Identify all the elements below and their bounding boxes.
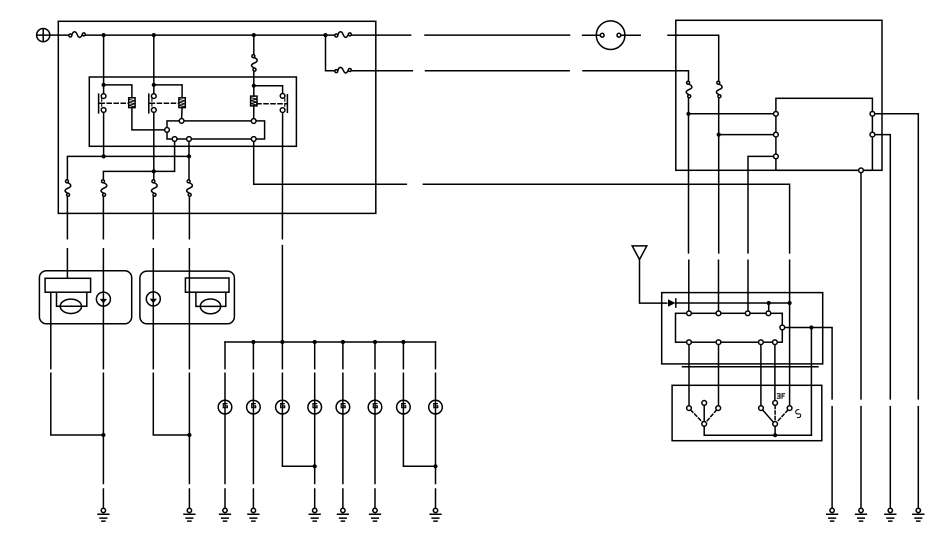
wire: pin3 to radio — [748, 156, 773, 310]
relay R3 armature — [286, 95, 288, 113]
dimmer relay box — [89, 77, 296, 146]
left headlight unit — [39, 271, 131, 324]
junction — [373, 340, 377, 344]
ground — [370, 508, 381, 521]
lamp bus drop 3 — [281, 342, 283, 400]
circuit breaker CB4 — [251, 55, 257, 72]
junction — [809, 325, 813, 329]
junction — [152, 83, 156, 87]
wire: bus to relay2 — [153, 35, 155, 85]
left bulb body — [57, 292, 87, 306]
radio pin bottom g — [759, 340, 764, 345]
junction — [401, 340, 405, 344]
relay R2 coil feed — [154, 85, 182, 98]
switch label 3F — [777, 394, 784, 399]
left unit connector symbol — [96, 292, 110, 306]
relay R2 contact dashed — [151, 99, 153, 108]
LO rail — [103, 142, 174, 180]
ground — [248, 508, 259, 521]
relay R1 contact terminals — [101, 94, 106, 99]
antenna — [632, 246, 647, 260]
lighting switch box — [672, 385, 822, 440]
relay R1 link dashed — [100, 102, 129, 104]
right control unit box — [676, 20, 882, 170]
relay connector block — [167, 121, 265, 139]
relay R2 contact terminals — [151, 94, 156, 99]
wire: lamp col 435.5 to ground — [435, 414, 437, 508]
lamp bus drop 4 — [314, 342, 316, 400]
bulb L4 — [308, 400, 322, 414]
junction — [251, 340, 255, 344]
lamp bus drop 8 — [435, 342, 437, 400]
junction — [788, 301, 792, 305]
inner box pin3 — [774, 154, 779, 159]
circuit breaker CB1 — [69, 32, 86, 38]
wire: lamp col 314.7 to ground — [314, 414, 316, 508]
wire: pin6 to ground2 — [860, 173, 862, 508]
wire: CB5 dot to inner box — [689, 113, 774, 115]
wire: lamp col 253.4 to ground — [252, 414, 254, 508]
wire: left ground run — [102, 306, 104, 508]
relay R1 armature — [99, 94, 101, 113]
switch label 5 — [796, 410, 801, 418]
wire: ignition to right box — [621, 35, 719, 81]
radio pin top a — [687, 311, 692, 316]
wire: branch down to second feed — [326, 35, 335, 71]
junction — [313, 340, 317, 344]
radio pin right — [780, 325, 785, 330]
junction — [341, 340, 345, 344]
bulb L5 — [336, 400, 350, 414]
wire: CB4 to relay3 — [253, 71, 255, 85]
switch common wire — [704, 427, 811, 436]
relay R1 coil feed — [104, 85, 132, 98]
ground right 832.1 — [827, 508, 838, 521]
wire: lamp3 elbow — [282, 414, 314, 466]
left bulb reflector — [45, 278, 91, 292]
battery B+ — [37, 28, 50, 41]
circuit breaker CB5 — [686, 81, 692, 98]
relay R3 contact feed — [254, 86, 283, 94]
radio chassis line — [683, 366, 818, 368]
relay R3 link dashed — [257, 103, 286, 105]
radio pin bottom h — [773, 340, 778, 345]
wire: fuse3 out down — [152, 197, 154, 292]
inner box pin5 — [870, 132, 875, 137]
right headlight unit — [140, 271, 235, 324]
junction — [102, 33, 106, 37]
relay R2 armature — [149, 94, 151, 113]
ground — [220, 508, 231, 521]
junction — [433, 464, 437, 468]
wire: fuse1 out to left headlight — [66, 197, 68, 279]
ground right 918.3 — [913, 508, 924, 521]
relay R1 coil — [129, 98, 135, 108]
lamp bus drop 2 — [252, 342, 254, 400]
wire: R3 output to lamp bus — [281, 113, 283, 342]
wire: diode tap to pin — [768, 303, 770, 311]
junction — [187, 154, 191, 158]
ground right 861 — [856, 508, 867, 521]
ground — [309, 508, 320, 521]
relay R1 contact dashed — [101, 99, 103, 108]
junction — [686, 112, 690, 116]
wire: pin5 to ground3 — [875, 135, 890, 509]
junction — [252, 33, 256, 37]
relay R2 coil out — [181, 108, 184, 119]
junction — [280, 340, 284, 344]
wire: CB5 to pin and down — [688, 98, 690, 311]
ignition switch connector — [596, 21, 625, 50]
ground — [430, 508, 441, 521]
radio connector block — [676, 313, 783, 342]
bulb L2 — [247, 400, 261, 414]
wire: R2 output down — [153, 113, 155, 180]
relay R2 link dashed — [150, 102, 179, 104]
circuit breaker CB2 — [335, 32, 352, 38]
right unit connector symbol — [146, 292, 160, 306]
connector pin top1 — [179, 119, 184, 124]
wire: CB6 to pin and down — [718, 98, 720, 311]
lamp bus drop 6 — [374, 342, 376, 400]
circuit breaker CB6 — [716, 81, 722, 98]
fuse F1 — [65, 180, 71, 197]
connector pin bot3 — [251, 137, 256, 142]
diode D1 — [668, 299, 676, 307]
wire: fuse2 out down — [102, 197, 104, 293]
radio pin top d — [766, 311, 771, 316]
junction — [152, 33, 156, 37]
wire: bus y35 into ignition switch — [583, 34, 601, 36]
right inner unit box — [776, 98, 873, 170]
inner box pin6 — [859, 168, 864, 173]
relay R1 coil out to connector — [132, 108, 165, 130]
wire: pin4 to ground4 — [875, 114, 918, 508]
bulb L6 — [368, 400, 382, 414]
ground G2 — [184, 508, 195, 521]
switch S1 blades — [703, 406, 705, 422]
relay R3 coil — [253, 86, 255, 96]
wire: radio pins to switch — [689, 345, 775, 406]
junction — [323, 33, 327, 37]
wire: radio right pin to ground1 — [785, 328, 832, 509]
relay R2 contact feed — [153, 85, 155, 94]
fuse F3 — [151, 180, 157, 197]
connector pin bot2 — [187, 137, 192, 142]
fuse F4 — [187, 180, 193, 197]
bulb L7 — [397, 400, 411, 414]
radio pin bottom f — [716, 340, 721, 345]
junction — [152, 169, 156, 173]
ground right 890.3 — [885, 508, 896, 521]
radio pin bottom e — [687, 340, 692, 345]
relay R3 coil out — [253, 106, 255, 119]
connector pin top2 — [251, 119, 256, 124]
lamp bus drop 5 — [342, 342, 344, 400]
junction — [187, 433, 191, 437]
switch S2 terminals — [759, 406, 764, 411]
relay R2 coil — [179, 98, 185, 108]
wire: antenna lead — [640, 260, 667, 304]
relay R3 contact terminals — [280, 94, 285, 99]
wire: main bus y35 — [86, 34, 335, 36]
wire: R1 output to HI rail — [103, 113, 105, 157]
right bulb body — [196, 292, 226, 306]
bulb L8 — [429, 400, 443, 414]
inner box pin1 — [774, 111, 779, 116]
wire: diode line — [676, 302, 790, 304]
ground — [338, 508, 349, 521]
radio pin top c — [745, 311, 750, 316]
junction — [102, 83, 106, 87]
switch S2 blades — [763, 410, 773, 422]
wire: CB6 dot to inner box — [719, 134, 774, 136]
bulb L3 — [276, 400, 290, 414]
wire: pin bot2 to fuse4 — [188, 142, 190, 180]
ground G1 — [98, 508, 109, 521]
lamp bus — [225, 341, 436, 343]
radio pin top b — [716, 311, 721, 316]
HI rail — [67, 156, 189, 179]
junction — [313, 464, 317, 468]
right bulb reflector — [185, 278, 229, 292]
inner box pin4 — [870, 111, 875, 116]
wire: lamp col 375 to ground — [374, 414, 376, 508]
wire: bus y35 mid segment — [425, 34, 570, 36]
wire: lamp col 342.9 to ground — [342, 414, 344, 508]
junction — [102, 154, 106, 158]
circuit breaker CB3 — [335, 67, 352, 73]
connector pin bot1 — [172, 137, 177, 142]
wire: left bulb to joint — [51, 292, 104, 435]
connector pin left — [165, 128, 170, 133]
wire: battery to breaker — [50, 34, 69, 36]
wire: feed y70 segments — [352, 71, 689, 82]
wire: bus y35 to gap — [352, 34, 411, 36]
radio unit box — [662, 293, 823, 364]
wire: lamp7 elbow — [403, 414, 435, 466]
wire: fuse4 out down — [188, 197, 190, 435]
relay R3 contact dashed — [284, 99, 286, 108]
inner box pin2 — [774, 132, 779, 137]
junction — [101, 433, 105, 437]
junction — [767, 301, 771, 305]
switch S1 terminals — [687, 406, 692, 411]
lamp bus drop 7 — [402, 342, 404, 400]
fuse/relay main box (left) — [58, 21, 376, 213]
wire: bus to relay1 — [103, 35, 105, 85]
bulb L1 — [218, 400, 232, 414]
relay R1 contact feed — [103, 85, 105, 94]
lamp bus drop 1 — [224, 342, 226, 400]
wire: tap down to switch common line — [810, 330, 812, 436]
junction — [252, 84, 256, 88]
wire: right ground run — [188, 437, 190, 508]
junction — [773, 433, 777, 437]
wire: right conn to joint — [153, 306, 189, 435]
fuse F2 — [101, 180, 107, 197]
wire: pin bot3 long run to radio — [254, 142, 790, 406]
wire: bus to breaker CB4 — [253, 35, 255, 55]
junction — [717, 133, 721, 137]
wire: lamp col 225 to ground — [224, 414, 226, 508]
